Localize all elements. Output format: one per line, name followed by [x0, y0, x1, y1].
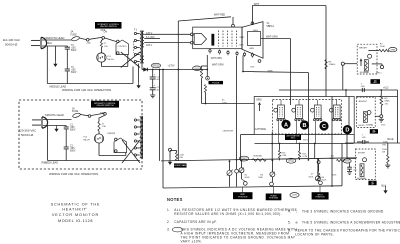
svg-text:CAPACITORS ARE IN µF.: CAPACITORS ARE IN µF. [174, 220, 217, 224]
svg-text:BLUE: BLUE [388, 139, 394, 141]
svg-text:+613: +613 [383, 87, 389, 90]
svg-text:3A: 3A [71, 31, 74, 34]
svg-text:CATHODE: CATHODE [223, 130, 234, 133]
svg-text:330K: 330K [257, 156, 263, 158]
svg-text:500K: 500K [322, 179, 327, 181]
svg-text:SCHEMATIC OF THE: SCHEMATIC OF THE [51, 202, 101, 206]
svg-text:GRN: GRN [268, 71, 273, 73]
svg-text:POSITION: POSITION [269, 198, 279, 200]
svg-text:FUSE: FUSE [71, 34, 78, 36]
svg-text:220-260 VAC: 220-260 VAC [19, 129, 38, 133]
svg-text:50/60 HZ: 50/60 HZ [5, 43, 18, 47]
svg-text:BRIGHT: BRIGHT [359, 47, 368, 49]
svg-text:20%: 20% [381, 125, 385, 127]
svg-text:C: C [322, 124, 326, 130]
svg-text:5BP1A: 5BP1A [267, 25, 275, 28]
svg-text:163 V: 163 V [146, 44, 153, 47]
svg-text:2.: 2. [167, 220, 170, 224]
svg-text:680K: 680K [385, 101, 391, 103]
svg-text:HORIZ GAIN: HORIZ GAIN [174, 164, 186, 167]
svg-text:WHT: WHT [240, 37, 246, 39]
svg-text:THE 5 SYMBOL INDICATES A SCREW: THE 5 SYMBOL INDICATES A SCREWDRIVER ADJ… [302, 220, 400, 224]
svg-text:RESISTOR VALUES ARE IN OHMS (K: RESISTOR VALUES ARE IN OHMS (K=1,000 M=1… [174, 212, 282, 216]
svg-text:RIBBED LEAD: RIBBED LEAD [42, 162, 59, 165]
svg-text:2.2M: 2.2M [282, 155, 287, 157]
svg-text:ADJ: ADJ [374, 81, 377, 84]
svg-text:GRN: GRN [390, 49, 395, 51]
svg-text:OFF: OFF [101, 30, 106, 32]
svg-text:THE 3 SYMBOL INDICATES CHASSIS: THE 3 SYMBOL INDICATES CHASSIS GROUND. [302, 209, 385, 213]
svg-text:WHT-GRN: WHT-GRN [266, 36, 278, 39]
svg-text:WIRING FOR 240 VAC OPERATION: WIRING FOR 240 VAC OPERATION [49, 172, 98, 176]
svg-text:600V: 600V [70, 151, 76, 153]
svg-text:1 MEG: 1 MEG [329, 64, 336, 66]
svg-text:SMOOTH LEAD: SMOOTH LEAD [45, 113, 64, 117]
svg-text:VECTOR MONITOR: VECTOR MONITOR [52, 213, 99, 217]
svg-text:2W: 2W [382, 151, 385, 153]
svg-text:5.: 5. [288, 220, 291, 224]
svg-text:WHT-ORN: WHT-ORN [211, 58, 222, 60]
svg-text:SW 2: SW 2 [303, 140, 309, 142]
svg-text:SHORT: SHORT [358, 152, 366, 154]
svg-text:MODEL IO-1128: MODEL IO-1128 [58, 219, 93, 223]
svg-text:500K: 500K [245, 177, 250, 179]
svg-text:CATHODE: CATHODE [255, 128, 267, 131]
svg-text:1.: 1. [167, 208, 171, 212]
svg-text:2.7M: 2.7M [303, 156, 308, 158]
svg-text:GRN: GRN [249, 48, 254, 50]
svg-text:NORMAL: NORMAL [357, 177, 367, 180]
svg-text:BLK: BLK [48, 42, 53, 45]
svg-text:POSITION: POSITION [238, 197, 248, 199]
svg-text:HEATHKIT: HEATHKIT [62, 208, 86, 212]
svg-text:B: B [302, 123, 306, 129]
svg-text:6.: 6. [288, 229, 291, 233]
svg-text:NOTES: NOTES [167, 197, 183, 202]
svg-text:WHT-RED: WHT-RED [214, 14, 225, 17]
svg-text:6.3 VAC: 6.3 VAC [146, 36, 155, 39]
svg-text:1.5K: 1.5K [104, 46, 109, 48]
svg-text:LOCATION OF PARTS.: LOCATION OF PARTS. [295, 233, 334, 237]
svg-text:(+700MA): (+700MA) [364, 124, 374, 127]
svg-text:100K: 100K [383, 141, 388, 143]
svg-text:(163): (163) [195, 68, 200, 70]
svg-text:SW 2: SW 2 [291, 138, 296, 140]
svg-text:50/60 HZ: 50/60 HZ [21, 133, 34, 137]
svg-text:(GRY): (GRY) [241, 157, 248, 160]
svg-text:↓: ↓ [296, 210, 298, 214]
svg-text:(RED): (RED) [153, 64, 160, 67]
svg-text:600V: 600V [71, 50, 77, 52]
svg-text:FOCUS: FOCUS [212, 82, 220, 84]
svg-text:CONTROL: CONTROL [118, 46, 127, 48]
svg-text:500K: 500K [309, 176, 314, 178]
svg-text:NE-2H: NE-2H [84, 139, 91, 141]
svg-text:GRN: GRN [253, 30, 258, 32]
svg-text:3.: 3. [167, 228, 170, 232]
svg-text:SMOOTH LEAD: SMOOTH LEAD [46, 36, 65, 40]
svg-text:POSITION: POSITION [316, 197, 326, 199]
svg-text:VARY ±10%.: VARY ±10%. [181, 240, 203, 244]
svg-text:(2A): (2A) [87, 42, 91, 45]
svg-text:3A: 3A [72, 107, 75, 110]
svg-text:125 V: 125 V [146, 32, 153, 35]
svg-text:A: A [284, 122, 288, 128]
svg-text:600V: 600V [71, 72, 77, 74]
svg-text:BRIGHT: BRIGHT [359, 101, 368, 103]
svg-text:FUSE: FUSE [72, 111, 79, 113]
svg-text:(YEL): (YEL) [288, 160, 294, 163]
svg-text:+175V: +175V [168, 64, 175, 67]
svg-text:D: D [345, 128, 349, 134]
svg-text:WIRING FOR 120 VAC OPERATION: WIRING FOR 120 VAC OPERATION [62, 88, 111, 92]
svg-text:NE-2H: NE-2H [107, 59, 114, 61]
svg-text:BLK: BLK [251, 67, 256, 69]
svg-text:4.: 4. [288, 209, 291, 213]
svg-text:(148): (148) [292, 195, 297, 197]
svg-text:110-130 VAC: 110-130 VAC [3, 38, 21, 42]
svg-text:100K: 100K [332, 175, 337, 177]
svg-text:600V: 600V [70, 130, 76, 132]
svg-text:500K: 500K [258, 177, 263, 179]
svg-text:SW 1: SW 1 [376, 73, 382, 75]
svg-text:ON-OFF SWITCH: ON-OFF SWITCH [100, 26, 117, 28]
svg-text:(GN): (GN) [345, 161, 350, 163]
svg-text:JUMPER: JUMPER [107, 133, 116, 135]
svg-text:1.5K: 1.5K [102, 126, 107, 128]
svg-text:500K: 500K [380, 46, 386, 48]
svg-text:WHT-GRN: WHT-GRN [212, 64, 224, 67]
svg-text:NORMAL: NORMAL [360, 71, 370, 74]
svg-text:BLK: BLK [240, 44, 245, 46]
svg-text:GRID: GRID [256, 99, 262, 101]
svg-text:⊘: ⊘ [295, 221, 298, 225]
svg-text:ON-OFF SWITCH: ON-OFF SWITCH [97, 105, 114, 107]
